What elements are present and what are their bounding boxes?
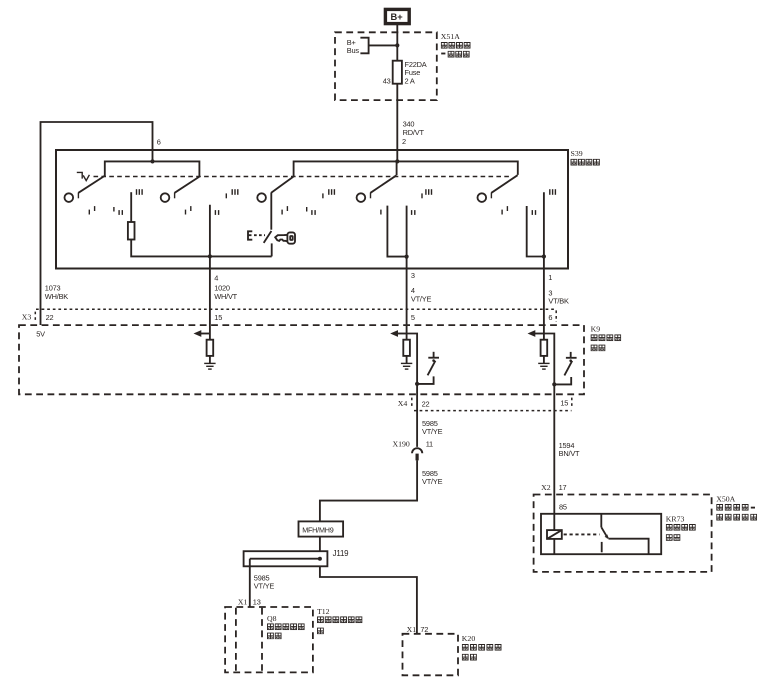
position markers I II III for contact 4 — [381, 189, 432, 215]
label X51A 保险丝盒 - 仪表板 — [441, 32, 470, 57]
wire B+ to fuse block — [396, 25, 398, 46]
node: driver joins X4 pin 15 wire — [552, 382, 556, 386]
position markers I II III for contact 1 — [89, 189, 142, 215]
svg-text:VT/YE: VT/YE — [422, 427, 443, 436]
wire resistor to accessory bus — [131, 240, 272, 257]
svg-text:1: 1 — [548, 273, 552, 282]
svg-text:X3: X3 — [22, 312, 32, 321]
svg-text:WH/BK: WH/BK — [45, 292, 68, 301]
battery feed terminal B+ — [385, 9, 409, 23]
key operated switch E with key icon — [248, 231, 295, 256]
harness sleeve MFH/MH9 — [299, 521, 344, 536]
K9 input sense: arrow + pull resistor + ground at pin 5 — [390, 330, 412, 369]
wire pin 4 (contact 2 position II) 1020 WH/VT down to X3 pin 15 — [210, 205, 238, 340]
wire contact 4 position I strap to position II — [387, 206, 406, 257]
position markers I II III for contact 3 — [282, 189, 334, 215]
K9 input sense: arrow + pull resistor + ground at pin 15 — [194, 330, 216, 369]
svg-text:2 A: 2 A — [405, 76, 415, 85]
relay coil-contact dashed link — [564, 533, 600, 535]
ignition switch S39 outline — [56, 149, 599, 269]
ignition switch wafer contact 4 (arm to circle, fed by pin 2) — [396, 161, 398, 175]
inline connector X190 pin 11 — [392, 439, 433, 460]
svg-text:BN/VT: BN/VT — [559, 449, 580, 458]
position markers I II III for contact 2 — [186, 189, 238, 215]
relay contact (switch) — [601, 514, 648, 554]
svg-text:KR73: KR73 — [666, 514, 685, 523]
ignition switch wafer contact 3 (arm to circle) — [257, 177, 293, 202]
splice pack J119 — [244, 549, 350, 567]
body control module K9 dashed outline — [19, 325, 621, 395]
wire 5985 VT/YE from X4 22 to X190 — [422, 419, 443, 436]
fuse F22DA 2A, cavity 43 — [383, 60, 427, 85]
K9 output driver (switch symbol) pin 5 branch — [417, 352, 439, 384]
svg-text:6: 6 — [548, 313, 552, 322]
svg-text:X4: X4 — [398, 399, 408, 408]
svg-text:MFH/MH9: MFH/MH9 — [302, 525, 334, 534]
svg-text:VT/YE: VT/YE — [422, 477, 443, 486]
wire 5985 VT/YE left branch J119 to T12 X1 pin 13 — [238, 559, 275, 607]
bus wire from pin 6 feeding switch contacts 1-2 — [105, 161, 200, 177]
wire X2 pin 17 into relay coil terminal 85 — [553, 495, 555, 531]
svg-text:5: 5 — [411, 313, 415, 322]
fuse block X51A (instrument panel) dashed outline — [335, 32, 437, 100]
B+ Bus bar tap — [347, 38, 398, 56]
svg-text:VT/BK: VT/BK — [548, 296, 569, 305]
svg-text:11: 11 — [426, 439, 433, 448]
wire pin 3 (contact 4 position II) 4 VT/YE down to X3 pin 5 — [407, 206, 432, 340]
svg-text:X1: X1 — [407, 625, 417, 634]
svg-text:5V: 5V — [36, 330, 45, 339]
svg-text:17: 17 — [559, 483, 567, 492]
svg-text:K20: K20 — [462, 634, 476, 643]
K9 input sense: arrow + pull resistor + ground at pin 6 — [528, 330, 550, 369]
node: strap joins pin 3 wire — [405, 255, 409, 259]
mechanical linkage dashed line — [94, 176, 511, 178]
ignition switch wafer contact 5 (arm to circle) — [478, 175, 518, 202]
resistor (key-in warning) inside S39 — [128, 222, 135, 240]
underhood fuse block X50A dashed outline — [534, 494, 757, 572]
ignition switch wafer contact 2 (arm to circle) — [161, 177, 200, 202]
svg-text:2: 2 — [402, 137, 406, 146]
svg-text:X2: X2 — [541, 483, 551, 492]
internal 5V label at pin 22 — [36, 330, 45, 339]
node: strap joins pin 1 wire — [542, 254, 546, 258]
automatic transmission assembly T12 dashed outline — [225, 607, 362, 673]
node: pin 6 joins bus — [150, 159, 154, 163]
connector X3 (dotted line with pin numbers 22 15 5 6) — [22, 309, 556, 322]
svg-text:X190: X190 — [392, 439, 409, 448]
svg-text:22: 22 — [46, 313, 54, 322]
svg-text:WH/VT: WH/VT — [214, 292, 237, 301]
wire contact 1 position III down to resistor — [130, 192, 132, 222]
wire junction to fuse — [396, 45, 398, 60]
svg-text:X1: X1 — [238, 597, 248, 606]
svg-text:T12: T12 — [317, 607, 330, 616]
bus wire from pin 2 feeding switch contacts 3-5 — [294, 161, 518, 176]
node: junction of B+ bus and fuse feed — [395, 43, 399, 47]
svg-text:S39: S39 — [571, 149, 583, 158]
svg-text:J119: J119 — [333, 549, 350, 558]
wire 340 RD/VT : fuse to ignition switch pin 2 — [397, 84, 424, 162]
engine control module K20 dashed outline — [403, 634, 502, 676]
node: pin 2 joins bus — [395, 159, 399, 163]
wire pin 1 (contact 5 position III) 3 VT/BK down to X3 pin 6 — [544, 192, 569, 339]
position markers I II III for contact 5 — [502, 189, 555, 215]
svg-text:72: 72 — [420, 625, 428, 634]
wire 6 loop: S39 pin 6 up over to left, down to X3 pin 22 (1073 WH/BK) — [41, 122, 161, 325]
node: accessory bus crosses pin 4 wire — [208, 254, 212, 258]
svg-text:RD/VT: RD/VT — [403, 128, 425, 137]
wire sleeve to splice J119 — [319, 537, 321, 552]
svg-text:15: 15 — [560, 398, 568, 407]
K9 output driver (switch symbol) pin 6 branch — [554, 352, 576, 385]
svg-text:X50A: X50A — [716, 494, 735, 503]
svg-text:Bus: Bus — [347, 46, 360, 55]
K9 driver branch from pin 5 to X4 pin 22 — [407, 334, 418, 447]
svg-text:X51A: X51A — [441, 32, 460, 41]
svg-text:K9: K9 — [591, 325, 601, 334]
wire right branch J119 to K20 X1 pin 72 — [320, 566, 428, 634]
node: splice junction in J119 — [318, 557, 322, 561]
wire 1594 BN/VT from X4 15 to X2 pin 17 — [541, 441, 580, 492]
svg-text:22: 22 — [422, 399, 430, 408]
relay coil — [547, 530, 562, 554]
svg-text:B+: B+ — [391, 12, 404, 22]
ignition switch wafer contact 1 (arm to circle) — [65, 176, 105, 202]
svg-text:4: 4 — [214, 274, 218, 283]
svg-text:13: 13 — [253, 597, 261, 606]
svg-text:Q8: Q8 — [267, 614, 277, 623]
svg-text:VT/YE: VT/YE — [254, 582, 275, 591]
svg-text:3: 3 — [411, 271, 415, 280]
svg-text:15: 15 — [214, 313, 222, 322]
K9 driver branch from pin 6 to X4 pin 15 — [544, 334, 554, 495]
svg-text:43: 43 — [383, 76, 391, 85]
connector X4 (pins 22 and 15) — [398, 398, 572, 411]
svg-text:VT/YE: VT/YE — [411, 294, 432, 303]
detent / lock symbol at linkage start — [77, 172, 90, 180]
wire contact 3 down to key switch — [270, 193, 272, 230]
wire contact 5 position II strap to position III — [527, 206, 544, 257]
node: driver joins X4 pin 22 wire — [415, 382, 419, 386]
wire 5985 VT/YE from X190 to splice sleeve — [320, 460, 443, 521]
svg-text:85: 85 — [559, 503, 567, 512]
control solenoid valve assembly Q8 inner dashed box — [236, 608, 304, 671]
relay KR73 ignition main relay outline — [541, 503, 695, 555]
svg-text:6: 6 — [157, 137, 161, 146]
